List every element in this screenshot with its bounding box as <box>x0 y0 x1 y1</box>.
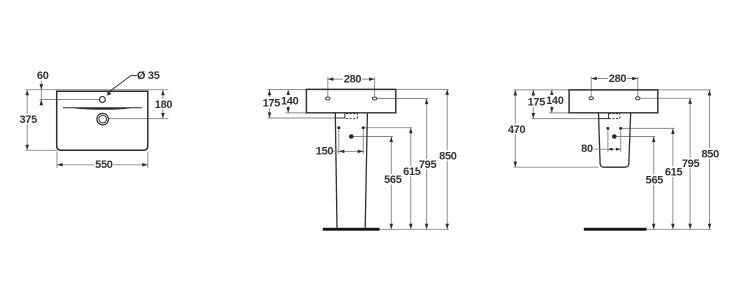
dim 565 front: dimension line <box>390 137 392 230</box>
dia 35: leader arrowhead <box>106 92 111 96</box>
front view: extension line from right tap hole (795 datum) <box>376 98 428 100</box>
dim 80: extension lines from fixing holes <box>607 130 609 152</box>
left view: drain inner circle <box>99 115 107 123</box>
svg-text:375: 375 <box>19 114 37 126</box>
right view: extension line bottom of shroud (470 datum) <box>513 166 598 168</box>
dim 850 side: arrows <box>708 90 712 96</box>
front view: under-basin step (visible) <box>335 113 345 118</box>
left view: tap hole circle <box>100 97 106 103</box>
dim 615 front: label <box>402 166 421 177</box>
front view: floor extension line <box>380 228 449 230</box>
right view: right fixing hole dot <box>619 127 622 130</box>
dim 470: label <box>507 124 526 135</box>
right view: extension line top-right (850 datum) <box>659 89 711 91</box>
left view: extension lines for 550 <box>56 152 58 169</box>
front view: floor bar <box>323 228 380 231</box>
dim 850 front: arrows <box>445 89 449 95</box>
right view: extension line from overflow (565 datum) <box>617 136 656 138</box>
dim 180: arrows <box>161 90 165 96</box>
dim 150: arrows <box>339 150 345 154</box>
dim 565 side: dimension line <box>653 137 655 230</box>
dim 565 front: label <box>383 174 402 185</box>
dim 175 side: arrows <box>532 90 536 96</box>
dim 470: arrows <box>514 90 518 96</box>
front view: extension line top-left (175/140 datum) <box>268 89 307 91</box>
front view: extension line top-right (850 datum) <box>397 88 449 90</box>
front view: pedestal left edge <box>335 113 337 228</box>
dim 850 side: dimension line <box>709 90 711 229</box>
right view: left tap hole <box>589 97 593 100</box>
dim 150: dimension line <box>333 150 364 152</box>
svg-text:140: 140 <box>281 95 299 107</box>
svg-text:795: 795 <box>419 159 437 171</box>
svg-text:565: 565 <box>646 174 664 186</box>
dim 140 side: arrows <box>550 90 554 96</box>
left view: drain outer circle <box>97 113 109 125</box>
front view: basin body outline <box>306 89 395 112</box>
dim 795 front: arrows <box>425 99 429 105</box>
dim 60: dimension line <box>40 81 42 107</box>
dim 850 side: label <box>701 148 720 159</box>
right view: left fixing hole dot <box>606 127 609 130</box>
dim 550: dimension line <box>57 164 148 166</box>
dim 80: dimension line <box>594 148 621 150</box>
front view: right fixing hole dot <box>362 126 365 129</box>
right view: floor extension line <box>647 228 712 230</box>
dim 375: dimension line <box>26 90 28 151</box>
svg-text:60: 60 <box>37 70 49 82</box>
dim 615 front: dimension line <box>410 128 412 230</box>
dim 375: label <box>19 114 38 125</box>
right view: extension line from right tap hole (795 datum) <box>640 97 692 99</box>
svg-text:615: 615 <box>665 167 683 179</box>
front view: left tap hole <box>326 97 330 100</box>
dim 795 side: label <box>681 158 700 169</box>
svg-text:175: 175 <box>263 97 281 109</box>
right view: right tap hole <box>636 97 640 100</box>
front view: extension line from right fixing hole (615 datum) <box>365 127 413 129</box>
svg-text:280: 280 <box>609 73 627 85</box>
dim 565 side: label <box>645 174 664 185</box>
left view: basin inner front edge <box>63 107 142 109</box>
front view: extension line bottom of apron (140 dim) <box>285 112 306 114</box>
dim 850 front: dimension line <box>446 89 448 229</box>
left view: extension line drain centre (180 dim) <box>109 118 169 120</box>
front view: pedestal right edge <box>365 113 367 228</box>
svg-text:180: 180 <box>155 99 173 111</box>
dim 175 front: arrows <box>268 90 272 96</box>
svg-text:565: 565 <box>384 174 402 186</box>
front view: extension line from overflow (565 datum) <box>354 136 393 138</box>
dim 60: arrows <box>40 84 44 90</box>
dim 795 front: dimension line <box>426 99 428 230</box>
dim 180: dimension line <box>162 90 164 119</box>
left view: basin edge crescent <box>73 108 132 110</box>
dim 615 side: arrows <box>671 128 675 134</box>
svg-text:280: 280 <box>344 73 362 85</box>
left view: extension line at tap-hole centre (60 dim) <box>40 99 100 101</box>
svg-text:550: 550 <box>95 159 113 171</box>
dim 550: arrows <box>57 163 63 167</box>
right view: under-basin step (visible) <box>599 113 609 119</box>
dim 795 side: arrows <box>688 98 692 104</box>
svg-text:850: 850 <box>439 150 457 162</box>
right view: extension line bottom of apron (140 dim) <box>549 112 569 114</box>
dim 280 side: dimension line <box>591 78 638 80</box>
dim 280 front: arrows <box>328 77 334 81</box>
right view: semi-pedestal shroud outline <box>599 113 631 167</box>
dim 140 front: label <box>280 95 299 106</box>
dim 175 side: dimension line <box>532 90 534 119</box>
right view: hidden drain box (dashed) <box>609 113 620 115</box>
svg-text:470: 470 <box>508 124 526 136</box>
dim 615 side: dimension line <box>672 128 674 229</box>
dim 140 side: label <box>545 95 564 106</box>
right view: extension lines for 280 above tap holes <box>590 76 592 96</box>
dim 175 front: label <box>262 97 281 108</box>
svg-text:175: 175 <box>528 97 546 109</box>
svg-text:80: 80 <box>581 143 593 155</box>
dia 35: leader line <box>107 76 137 94</box>
dim 140 front: dimension line <box>287 90 289 113</box>
dim 175 side: label <box>527 97 546 108</box>
dim 280 side: arrows <box>591 77 597 81</box>
dim 175 front: dimension line <box>269 90 271 118</box>
dim 140 front: arrows <box>286 90 290 96</box>
svg-text:Ø 35: Ø 35 <box>137 70 160 82</box>
dim 795 front: label <box>418 159 437 170</box>
front view: hidden drain box (dashed) <box>346 113 358 115</box>
dim 565 side: arrows <box>652 137 656 143</box>
front view: right tap hole <box>372 97 376 100</box>
svg-text:795: 795 <box>682 158 700 170</box>
left view: extension line bottom left (375 datum) <box>26 149 58 151</box>
front view: overflow dot <box>349 134 354 139</box>
svg-text:850: 850 <box>701 149 719 161</box>
left view: basin outline (top view) <box>57 91 148 150</box>
svg-text:140: 140 <box>546 95 564 107</box>
right view: extension line bottom of ledge (175 dim) <box>532 118 599 120</box>
left view: extension line top (375/60/180 datum) <box>26 89 169 91</box>
dim 280 front: dimension line <box>328 78 375 80</box>
front view: extension lines for 280 above tap holes <box>327 77 329 96</box>
dim 470: dimension line <box>514 90 516 167</box>
right view: extension line top-left (470/175/140 datum) <box>513 89 569 91</box>
dim 550: label <box>94 159 113 170</box>
dim 180: label <box>154 99 173 110</box>
dim 150: extension lines from fixing holes <box>338 130 340 154</box>
dim 565 front: arrows <box>390 137 394 143</box>
dim 140 side: dimension line <box>551 90 553 113</box>
dim 280 front: label <box>343 73 362 84</box>
front view: extension line bottom of ledge (175 dim) <box>268 117 336 119</box>
right view: extension line from right fixing hole (615 datum) <box>622 127 674 129</box>
dim 615 front: arrows <box>409 128 413 134</box>
right view: basin body outline <box>569 90 658 113</box>
dim 80: arrows <box>608 148 613 151</box>
dim 850 front: label <box>438 150 457 161</box>
right view: floor bar <box>584 228 647 231</box>
front view: left fixing hole dot <box>337 126 340 129</box>
right view: overflow dot <box>612 134 617 139</box>
dim 280 side: label <box>608 73 627 84</box>
svg-text:150: 150 <box>316 145 334 157</box>
dim 615 side: label <box>664 166 683 177</box>
dim 375: arrows <box>25 90 29 96</box>
dim 795 side: dimension line <box>689 98 691 229</box>
